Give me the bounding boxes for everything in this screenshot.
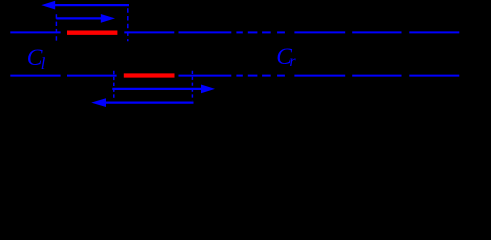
- arrow: second top read pointing right: [56, 14, 115, 23]
- read segment: red highlighted region on top line: [67, 31, 117, 35]
- wire: top dashed contig line (left contig C_l side): [10, 31, 459, 33]
- arrow: top-left read pointing left: [41, 1, 129, 10]
- arrow: bottom read pointing right: [112, 85, 215, 94]
- dashed guide: vertical left boundary of top red region: [55, 14, 57, 41]
- read segment: red highlighted region on bottom line: [124, 73, 175, 77]
- dashed guide: vertical right boundary at end of bottom arrows: [191, 71, 193, 101]
- wire: bottom dashed contig line (right contig C_r side): [10, 75, 459, 77]
- dashed guide: vertical right boundary at end of top-left arrow: [127, 8, 129, 41]
- dashed guide: vertical left boundary of bottom red region: [113, 71, 115, 98]
- arrow: lowest read pointing left: [91, 98, 193, 107]
